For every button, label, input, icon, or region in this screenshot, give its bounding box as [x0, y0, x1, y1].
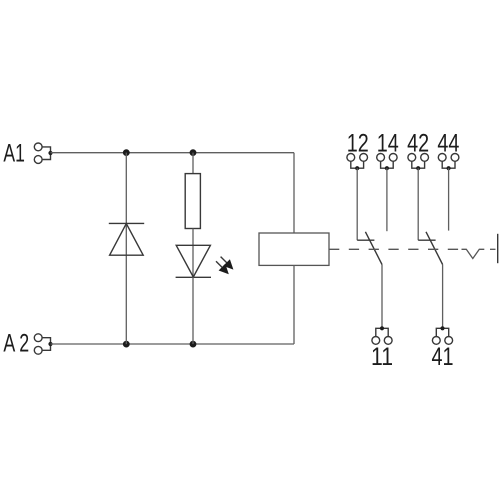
junction dot bottom rail / diode	[123, 341, 130, 348]
NC fixed contact bar 42	[418, 239, 435, 241]
wire contact 42 (NC)	[417, 168, 419, 240]
terminal 14	[377, 154, 397, 171]
wire contact 14 (NO)	[386, 168, 388, 231]
suppressor diode V1	[109, 223, 144, 255]
junction dot top rail / diode	[123, 149, 130, 156]
wire LED to bottom rail	[192, 277, 194, 344]
wire resistor top	[192, 153, 194, 174]
junction dot top rail / resistor	[190, 149, 197, 156]
wire bottom rail	[51, 343, 295, 345]
relay coil K1	[259, 233, 329, 265]
wire common 41	[442, 265, 444, 329]
terminal A2	[34, 334, 52, 354]
wire coil top	[293, 153, 295, 233]
wire contact 44 (NO)	[448, 168, 450, 230]
wire top rail	[51, 152, 295, 154]
moving contact arm 2	[426, 232, 443, 265]
svg-text:41: 41	[432, 343, 454, 371]
wire diode branch	[125, 153, 127, 345]
terminal 41	[432, 326, 452, 344]
junction dot bottom rail / LED	[190, 341, 197, 348]
terminal 44	[438, 154, 459, 171]
terminal 42	[408, 154, 429, 171]
LED H1	[176, 245, 211, 277]
svg-text:11: 11	[371, 343, 393, 371]
NC fixed contact bar 12	[357, 239, 374, 241]
mechanical link V notch	[462, 249, 485, 258]
terminal 11	[372, 326, 392, 344]
mechanical link dashed line	[329, 248, 461, 250]
terminal 12	[347, 154, 368, 171]
LED arrow 2	[216, 261, 229, 274]
moving contact arm 1	[365, 232, 382, 265]
svg-text:A 2: A 2	[3, 330, 29, 358]
LED arrow 1	[221, 257, 234, 270]
wire contact 12 (NC)	[356, 168, 358, 240]
resistor R1	[185, 174, 200, 229]
wire coil bottom	[293, 265, 295, 344]
wire common 11	[381, 265, 383, 329]
svg-text:A1: A1	[3, 139, 25, 167]
wire resistor to LED	[192, 229, 194, 278]
terminal A1	[34, 143, 52, 163]
mechanical link dash before bar	[490, 248, 496, 250]
actuator bar	[497, 234, 499, 263]
